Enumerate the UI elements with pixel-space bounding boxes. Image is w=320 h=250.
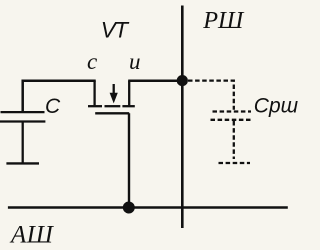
wire: capacitor C top lead to transistor drain <box>23 81 96 111</box>
capacitor Срш (dashed, parasitic) <box>211 112 253 120</box>
svg-text:с: с <box>87 49 97 74</box>
wire: transistor source to РШ bus <box>128 79 182 82</box>
junction dot at РШ bus <box>177 75 188 86</box>
svg-text:VT: VT <box>101 18 131 43</box>
bus РШ (vertical bit line) <box>181 6 184 229</box>
transistor VT (MOSFET) <box>88 81 135 114</box>
junction dot at АШ bus <box>123 202 135 214</box>
wire: transistor gate to АШ bus <box>128 113 130 207</box>
dashed wire: dot to Срш capacitor <box>188 81 234 110</box>
svg-text:C: C <box>45 95 61 118</box>
svg-text:АШ: АШ <box>9 221 55 248</box>
capacitor C <box>0 112 45 162</box>
dashed wire: Срш bottom lead <box>233 121 235 159</box>
ground bar (capacitor C common) <box>6 162 39 164</box>
svg-text:и: и <box>129 49 141 74</box>
svg-text:Срш: Срш <box>254 95 299 118</box>
svg-text:РШ: РШ <box>202 7 245 34</box>
bus АШ (horizontal word line) <box>8 206 288 209</box>
ground bar (Срш common, dashed) <box>219 162 251 164</box>
